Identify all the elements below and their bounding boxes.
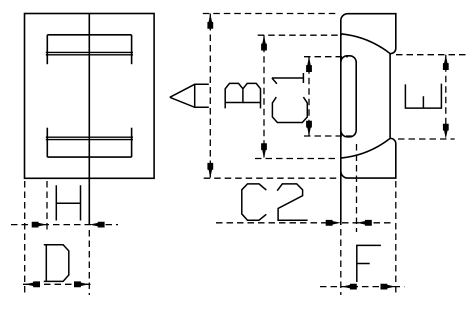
- dim H dimension line: [11, 224, 118, 226]
- front view center line dashed lower part: [88, 230, 90, 295]
- top bar right side: [131, 35, 133, 64]
- top bar double line upper: [46, 51, 133, 53]
- dim H right arrow (points left): [89, 222, 104, 228]
- front view outer rectangle: [25, 14, 155, 179]
- dim E bottom arrow: [443, 124, 449, 139]
- dim C2 left arrow (points right): [326, 220, 341, 226]
- dim H left extension line: [46, 181, 48, 230]
- label E (rotated): [405, 84, 441, 109]
- side view left edge extension solid part: [340, 171, 342, 225]
- dim F right arrow (points right): [381, 284, 396, 290]
- dim E bottom extension line: [398, 138, 455, 140]
- dim B bottom extension line: [255, 158, 339, 160]
- front view center line: [88, 14, 90, 225]
- dim E dimension line: [445, 55, 447, 139]
- side view top flange underside curve: [341, 34, 390, 54]
- dim A top arrow: [207, 14, 213, 29]
- dim A bottom extension line: [204, 177, 339, 179]
- label F: [357, 245, 381, 282]
- side view bottom flange top curve: [341, 138, 390, 158]
- dim A dimension line: [209, 14, 211, 179]
- label D: [44, 245, 69, 282]
- dim D right arrow (points right): [74, 281, 89, 287]
- dim A bottom arrow: [207, 163, 213, 178]
- bottom bar right side: [131, 128, 133, 157]
- dim C1 dimension line: [308, 57, 310, 136]
- dim C2 dimension line: [216, 222, 394, 224]
- bottom bar left side: [46, 128, 48, 157]
- label A (rotated): [170, 84, 209, 107]
- label C1 (rotated): [272, 73, 307, 123]
- bottom bar double line upper: [46, 136, 133, 138]
- dim C1 bottom extension line: [304, 135, 352, 137]
- dim B top extension line: [258, 34, 342, 36]
- dim F dimension line: [320, 286, 404, 288]
- dim E top extension line: [396, 54, 467, 56]
- side view inner slot: [341, 56, 356, 137]
- label H: [56, 185, 80, 220]
- side view left edge extension line dashed: [340, 229, 342, 295]
- dim B bottom arrow: [261, 143, 267, 158]
- top bar left side: [46, 35, 48, 64]
- dim B dimension line: [263, 35, 265, 158]
- dim D left arrow (points left): [25, 281, 40, 287]
- flange right edge extension line: [395, 181, 397, 295]
- top bar double line lower: [46, 54, 133, 56]
- dim E top arrow: [443, 55, 449, 70]
- dim H left arrow (points right): [32, 222, 47, 228]
- slot right edge extension line: [356, 144, 358, 232]
- dim D dimension line: [23, 283, 91, 285]
- dim A top extension line: [203, 13, 339, 15]
- side view outline: [341, 14, 396, 178]
- dim C1 top extension line: [304, 56, 348, 58]
- dim D left extension line: [24, 181, 26, 296]
- label C2: [242, 184, 308, 220]
- top bar top edge: [47, 34, 131, 36]
- label B (rotated): [225, 83, 260, 108]
- dim C2 right arrow (points left): [357, 220, 372, 226]
- dim B top arrow: [261, 35, 267, 50]
- bottom bar bottom edge: [47, 156, 131, 158]
- dim F left arrow (points left): [342, 284, 357, 290]
- dim C1 top arrow: [306, 57, 312, 72]
- dim C1 bottom arrow: [306, 121, 312, 136]
- bottom bar double line lower: [46, 139, 133, 141]
